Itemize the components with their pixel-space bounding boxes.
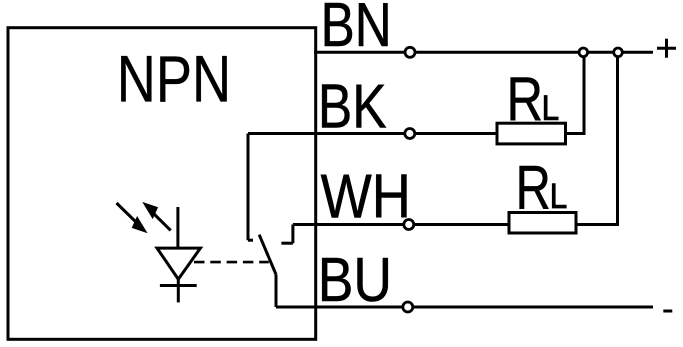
svg-text:R: R — [516, 154, 551, 223]
svg-text:BK: BK — [318, 73, 387, 142]
svg-text:BN: BN — [321, 0, 392, 60]
svg-text:R: R — [506, 66, 543, 135]
svg-text:NPN: NPN — [117, 42, 231, 116]
svg-text:BU: BU — [318, 246, 392, 315]
svg-text:WH: WH — [321, 163, 411, 232]
